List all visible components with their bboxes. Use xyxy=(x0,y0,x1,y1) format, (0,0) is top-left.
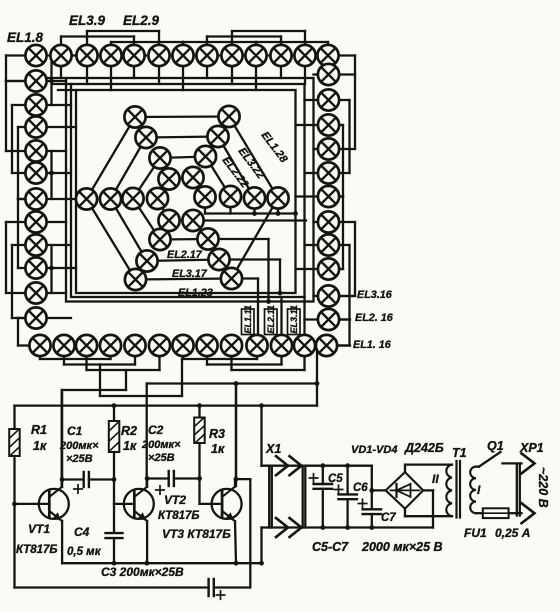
lamp bottom row 3 xyxy=(76,335,97,356)
svg-text:200мк×: 200мк× xyxy=(59,440,99,452)
label C6 plus xyxy=(334,485,342,493)
capacitor C4 xyxy=(106,533,123,538)
wire spiral exit ring2 (EL2.17) and riser xyxy=(219,258,280,260)
wire VT1 base node down xyxy=(13,504,15,588)
lamp top row 2 xyxy=(50,45,71,66)
node C6 bottom xyxy=(345,525,350,530)
wire C2 lead right xyxy=(174,477,200,479)
lamp right column 5 xyxy=(318,162,339,183)
svg-text:КТ817Б: КТ817Б xyxy=(158,510,200,522)
svg-text:VT3 КТ817Б: VT3 КТ817Б xyxy=(162,527,231,541)
lamp spiral ring 1 TR xyxy=(218,106,239,127)
wire winding I bottom lead xyxy=(476,512,483,514)
wire riser to bottom lamp 11 xyxy=(280,297,282,335)
svg-text:C1: C1 xyxy=(67,424,83,438)
svg-text:0,5 мк: 0,5 мк xyxy=(67,546,102,558)
lamp spiral ring 4 BR xyxy=(182,210,203,231)
lamp bottom row 13 xyxy=(316,335,337,356)
node C6 top xyxy=(345,463,350,468)
plug XP1 upper pin xyxy=(522,453,535,473)
lamp right column 8 xyxy=(318,234,339,255)
wire emitter rail xyxy=(62,562,261,564)
wire bus loop 1 (outer) xyxy=(66,78,314,302)
svg-text:1к: 1к xyxy=(33,439,47,453)
wire bus loop 2 (middle) xyxy=(71,84,305,297)
label EL1.11 (rotated, boxed) xyxy=(242,309,255,335)
wire top-row through line xyxy=(36,54,328,56)
svg-text:C5-C7: C5-C7 xyxy=(312,540,349,554)
wire bottom bus 1 xyxy=(147,382,317,384)
svg-text:~220 В: ~220 В xyxy=(536,467,550,508)
wire bridge top to winding II xyxy=(404,465,406,473)
lamp spiral ring 4 TL xyxy=(158,168,179,189)
svg-text:II: II xyxy=(432,472,439,486)
wire bridge bottom to winding II xyxy=(404,509,406,517)
svg-text:1к: 1к xyxy=(211,442,225,456)
wire bridge minus xyxy=(423,489,433,491)
wire C7 leads xyxy=(371,490,373,509)
svg-text:EL1.23: EL1.23 xyxy=(178,287,213,299)
lamp right column 1 xyxy=(318,64,339,85)
transistor VT2 xyxy=(124,487,154,521)
wire top-row chain brackets xyxy=(61,35,134,37)
resistor R2 xyxy=(109,421,120,452)
capacitor C2 xyxy=(169,471,174,486)
svg-text:2000 мк×25 В: 2000 мк×25 В xyxy=(361,540,443,554)
transformer T1 core xyxy=(455,461,457,518)
plug XP1 lower pin xyxy=(522,503,535,523)
wire leader EL1.16 xyxy=(337,344,350,346)
svg-text:C5: C5 xyxy=(328,473,343,485)
svg-text:VD1-VD4: VD1-VD4 xyxy=(351,444,397,456)
lamp left column 6 xyxy=(25,188,46,209)
lamp top row 8 xyxy=(196,45,217,66)
wire PSU bottom rail xyxy=(262,526,434,528)
svg-text:EL2.11: EL2.11 xyxy=(266,305,276,333)
lamp spiral ring 3 BL xyxy=(149,229,170,250)
lamp bottom row 10 xyxy=(246,335,267,356)
lamp spiral ring 1 TL xyxy=(124,106,145,127)
wire VT1 collector riser xyxy=(61,390,63,486)
resistor R1 xyxy=(9,429,20,456)
lamp right column 11 xyxy=(318,309,339,330)
wire C6 leads xyxy=(346,466,348,495)
label EL3.11 (rotated, boxed) xyxy=(288,309,301,335)
lamp top row 6 xyxy=(148,45,169,66)
lamp right column 4 xyxy=(318,138,339,159)
node C7 bottom xyxy=(369,525,374,530)
lamp bottom row 5 xyxy=(124,335,145,356)
wire Q1 to XP1 xyxy=(503,462,522,464)
svg-text:C3 200мк×25В: C3 200мк×25В xyxy=(101,565,184,579)
transformer T1 winding II xyxy=(446,465,452,517)
label C5 plus xyxy=(309,474,317,482)
wire spiral ring 2 edges xyxy=(111,138,147,200)
wire leader EL3.16 xyxy=(339,295,352,297)
label C1 plus xyxy=(74,485,82,493)
wire VT3 collector riser xyxy=(235,384,237,486)
wire spiral ring 1 edges xyxy=(87,117,136,199)
lamp top row 9 xyxy=(221,45,242,66)
lamp right column 3 xyxy=(318,114,339,135)
connector X1 lower contact xyxy=(276,518,288,537)
wire riser to bottom lamp 12 xyxy=(303,297,305,335)
lamp spiral ring 1 BR xyxy=(221,268,242,289)
wire spiral ring 4 edges xyxy=(158,179,170,199)
lamp spiral ring 3 TR xyxy=(195,146,216,167)
wire VT2 collector riser xyxy=(146,384,148,486)
wire C1 lead left xyxy=(62,478,84,480)
lamp right column 7 xyxy=(318,211,339,232)
svg-text:C2: C2 xyxy=(148,423,164,437)
lamp left column 5 xyxy=(25,162,46,183)
lamp left column 3 xyxy=(25,116,46,137)
lamp bottom row 4 xyxy=(100,335,121,356)
node C5 top xyxy=(320,463,325,468)
wire VT3 collector xyxy=(234,479,236,487)
bridge VD1-VD4 diamond xyxy=(386,472,424,509)
plug XP1 lines xyxy=(516,465,518,516)
wire VT2 base node down xyxy=(113,480,115,532)
lamp spiral ring 2 R xyxy=(244,187,265,208)
lamp top row 5 xyxy=(123,45,144,66)
lamp bottom row 12 xyxy=(294,335,315,356)
svg-text:EL2.17: EL2.17 xyxy=(167,249,203,261)
lamp right column 2 xyxy=(318,89,339,110)
svg-text:EL3.17: EL3.17 xyxy=(172,268,208,280)
wire DC plus corner xyxy=(371,466,373,491)
svg-text:1к: 1к xyxy=(123,439,137,453)
svg-text:EL2. 16: EL2. 16 xyxy=(355,312,394,324)
wire supply rail xyxy=(15,404,318,406)
connector X1 right lines xyxy=(302,466,304,528)
lamp left column 8 xyxy=(25,234,46,255)
lamp spiral ring 2 TR xyxy=(207,126,228,147)
lamp spiral ring 4 L xyxy=(147,188,168,209)
capacitor C7 xyxy=(363,509,382,514)
svg-text:EL1.11: EL1.11 xyxy=(243,305,253,333)
svg-text:EL1.8: EL1.8 xyxy=(7,30,44,45)
svg-text:КТ817Б: КТ817Б xyxy=(16,544,58,556)
wire spiral ring 3 edges xyxy=(133,158,160,199)
wire right-col lamp stubs to buses xyxy=(314,73,318,75)
wire left-col chain brackets xyxy=(6,54,25,56)
lamp spiral ring 2 TL xyxy=(135,127,156,148)
wire R1 to VT1 base node xyxy=(13,456,15,504)
lamp bottom row 8 xyxy=(196,335,217,356)
wire VT1 collector xyxy=(61,480,63,487)
lamp spiral ring 2 BR xyxy=(208,249,229,270)
wire middle-row collector line xyxy=(205,212,296,214)
lamp left column 2 xyxy=(25,94,46,115)
svg-text:200мк×: 200мк× xyxy=(141,439,181,451)
lamp top row 7 xyxy=(172,45,193,66)
lamp spiral ring 1 L xyxy=(76,188,97,209)
wire C3 lead left xyxy=(15,586,209,588)
transformer T1 winding I xyxy=(470,467,476,514)
wire spiral exit ring4 xyxy=(193,219,306,221)
wire R2 branch xyxy=(113,406,115,421)
node VT3 base xyxy=(197,476,202,481)
diode symbol inside bridge xyxy=(391,489,420,491)
transistor VT3 xyxy=(212,487,242,521)
label C7 plus xyxy=(358,499,366,507)
svg-text:R1: R1 xyxy=(31,423,47,437)
wire bus top extensions xyxy=(48,77,66,79)
switch Q1 xyxy=(479,452,501,467)
svg-text:Д242Б: Д242Б xyxy=(404,441,444,455)
svg-text:T1: T1 xyxy=(452,446,467,460)
connector X1 upper contact xyxy=(276,456,288,475)
svg-text:EL1. 16: EL1. 16 xyxy=(353,339,392,351)
svg-text:X1: X1 xyxy=(265,442,281,456)
wire left-col right-side links xyxy=(50,56,52,106)
lamp left column 4 xyxy=(25,140,46,161)
label EL2.11 (rotated, boxed) xyxy=(265,309,278,335)
svg-text:VT2: VT2 xyxy=(164,493,186,507)
lamp spiral ring 4 R xyxy=(194,186,215,207)
label C2 plus xyxy=(156,486,164,494)
wire spiral exit ring1 (EL3.17) and riser xyxy=(232,277,259,279)
lamp left column 9 xyxy=(25,257,46,278)
svg-text:FU1: FU1 xyxy=(464,526,487,540)
wire bottom bus 3 xyxy=(100,395,182,397)
wire R3 branch xyxy=(198,406,200,418)
wire leader EL2.16 xyxy=(339,318,350,320)
wire X1 upper feed xyxy=(260,406,262,466)
wire bottom bus 2 xyxy=(62,389,126,391)
wire PSU top rail xyxy=(305,465,372,467)
svg-text:C7: C7 xyxy=(381,512,396,524)
svg-text:0,25 А: 0,25 А xyxy=(495,526,530,540)
lamp spiral ring 3 L xyxy=(122,188,143,209)
lamp spiral ring 1 R xyxy=(267,187,288,208)
svg-text:EL3.16: EL3.16 xyxy=(357,289,393,301)
node VT3 collector xyxy=(234,477,239,482)
lamp left column 11 xyxy=(25,307,46,328)
node emitter VT3 xyxy=(234,561,239,566)
capacitor C5 xyxy=(314,484,333,489)
lamp spiral ring 2 BL xyxy=(136,250,157,271)
wire left-col lamp stubs to buses xyxy=(47,80,66,82)
svg-text:Q1: Q1 xyxy=(487,439,504,453)
svg-text:×25В: ×25В xyxy=(66,453,93,465)
wire VT3 base down and lead xyxy=(198,479,200,504)
wire VT1 base lead xyxy=(15,503,50,505)
node rail-X1 xyxy=(259,403,264,408)
svg-text:EL3.11: EL3.11 xyxy=(289,305,299,333)
svg-text:R3: R3 xyxy=(209,427,225,441)
wire FU1 to XP1 xyxy=(509,512,522,514)
svg-text:EL3.9: EL3.9 xyxy=(69,13,106,28)
wire VT2 collector xyxy=(146,479,148,487)
lamp top row 4 xyxy=(100,45,121,66)
lamp spiral ring 4 TR xyxy=(182,167,203,188)
lamp top row 12 xyxy=(294,45,315,66)
wire bus loop 3 (inner) xyxy=(76,90,296,293)
resistor R3 xyxy=(194,418,205,444)
connector X1 left lines xyxy=(268,466,270,528)
lamp left column 7 xyxy=(25,211,46,232)
wire C5 leads xyxy=(322,466,324,484)
lamp bottom row 11 xyxy=(271,335,292,356)
lamp spiral ring 3 TL xyxy=(149,147,170,168)
node emitter VT2 xyxy=(145,561,150,566)
lamp bottom row 6 xyxy=(149,335,170,356)
wire winding I top lead xyxy=(476,465,479,467)
wire C3 feedback right xyxy=(236,478,250,480)
node C5 bottom xyxy=(320,525,325,530)
lamp top row 11 xyxy=(270,45,291,66)
capacitor C1 xyxy=(84,472,89,487)
lamp bottom row 7 xyxy=(172,335,193,356)
node emitter C4 xyxy=(112,561,117,566)
wire top-row lamp stubs to buses xyxy=(60,66,62,78)
wire spiral exit ring3 and riser xyxy=(208,238,269,240)
wire C4 down xyxy=(113,538,115,563)
lamp bottom row 9 xyxy=(221,335,242,356)
wire right-col chain brackets xyxy=(339,54,355,56)
node rail-R3 xyxy=(197,403,202,408)
node bridge plus xyxy=(369,488,374,493)
wire R3 to VT3 base node xyxy=(198,443,200,479)
lamp top row 1 xyxy=(25,45,46,66)
svg-text:C6: C6 xyxy=(353,482,368,494)
svg-text:XP1: XP1 xyxy=(519,441,544,455)
lamp right column 9 xyxy=(318,258,339,279)
label C3 plus xyxy=(216,591,224,599)
wire VT3 emitter xyxy=(235,521,236,563)
wire C1 lead right xyxy=(89,478,114,480)
wire VT2 emitter xyxy=(146,521,148,563)
svg-text:R2: R2 xyxy=(121,424,137,438)
lamp right column 6 xyxy=(318,186,339,207)
wire VT1 emitter xyxy=(61,521,63,563)
wire spiral ring 1 right-bottom edge xyxy=(232,198,279,279)
node VT1 base xyxy=(12,502,17,507)
capacitor C3 xyxy=(209,579,214,596)
wire R2 to VT2 base node xyxy=(113,452,115,480)
lamp top row 3 xyxy=(76,45,97,66)
wire bottom-row chain brackets xyxy=(40,358,111,360)
capacitor C6 xyxy=(338,494,357,499)
wire R1 branch xyxy=(13,406,15,429)
svg-text:×25В: ×25В xyxy=(148,452,175,464)
node VT2 base xyxy=(112,477,117,482)
wire C2 lead left xyxy=(147,477,169,479)
lamp top row 13 xyxy=(317,45,338,66)
lamp spiral ring 4 BL xyxy=(158,210,179,231)
transistor VT1 xyxy=(39,487,69,521)
lamp right column 10 xyxy=(318,285,339,306)
lamp left column 1 xyxy=(25,70,46,91)
lamp top row 10 xyxy=(245,45,266,66)
wire riser to supply rail right end xyxy=(316,352,318,406)
lamp spiral ring 2 L xyxy=(100,188,121,209)
fuse FU1 xyxy=(483,508,509,518)
wire X1 lower feed xyxy=(260,528,262,564)
svg-text:C4: C4 xyxy=(74,525,90,539)
lamp spiral ring 1 BL xyxy=(125,269,146,290)
svg-text:EL2.9: EL2.9 xyxy=(123,13,160,28)
node rail-R2 xyxy=(112,403,117,408)
lamp bottom row 1 xyxy=(29,335,50,356)
wire VT2 base lead xyxy=(114,503,135,505)
lamp left column 10 xyxy=(25,282,46,303)
svg-text:VT1: VT1 xyxy=(28,522,50,536)
lamp bottom row 2 xyxy=(53,335,74,356)
lamp spiral ring 3 BR xyxy=(197,228,218,249)
lamp spiral ring 3 R xyxy=(220,186,241,207)
